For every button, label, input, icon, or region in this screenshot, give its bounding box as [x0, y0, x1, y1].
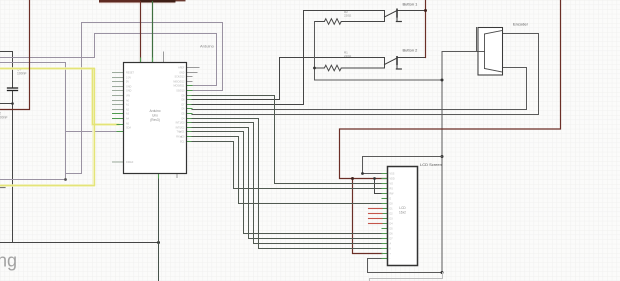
svg-text:Arduino: Arduino — [150, 109, 161, 113]
svg-text:VIN: VIN — [126, 95, 130, 98]
wire gray branch to Arduino A5 pin — [66, 131, 118, 133]
resistor R2 — [315, 11, 385, 25]
wire Arduino D0 to LCD pin4 — [192, 142, 388, 189]
svg-text:GND: GND — [179, 72, 185, 75]
wire LCD strap VDD to pin5 — [375, 179, 388, 194]
node junction resistor common — [313, 67, 316, 70]
wire resistor common rail — [315, 22, 443, 81]
svg-text:GND: GND — [126, 86, 132, 89]
wire bottom ground rail — [0, 242, 159, 244]
svg-text:Button 1: Button 1 — [403, 2, 419, 7]
wire encoder bottom right pin — [192, 68, 527, 110]
svg-text:Button 2: Button 2 — [403, 48, 419, 53]
wire LCD pin18 bottom loop — [368, 259, 443, 273]
wire Arduino bottom pin down — [158, 178, 160, 281]
svg-text:SCL: SCL — [180, 141, 185, 144]
svg-text:INT1/D3: INT1/D3 — [176, 122, 186, 125]
wire yellow halo — [0, 69, 119, 186]
node junction gray left — [64, 178, 67, 181]
wire red stubs LCD data pins — [369, 209, 383, 224]
wire C4 bottom to ground rail — [12, 92, 14, 243]
op-amp U1: Arduino Uno box — [124, 63, 187, 174]
op: Arduino left gray stubs — [113, 73, 124, 163]
svg-text:AREF: AREF — [178, 67, 185, 70]
wire green to Arduino top pin — [152, 2, 154, 63]
svg-text:LCD Screen: LCD Screen — [420, 162, 442, 167]
wire encoder left pin long vertical — [442, 52, 485, 273]
svg-text:Arduino: Arduino — [200, 44, 215, 49]
svg-text:220Ω: 220Ω — [344, 14, 352, 18]
wire faint bottom stub — [370, 273, 443, 281]
wire gray left edge loop — [0, 63, 66, 180]
label Arduino left pin names — [126, 72, 135, 165]
svg-text:VDD: VDD — [390, 178, 395, 181]
wire gray stub top pin3 — [163, 52, 165, 63]
node junction bottom loop — [441, 271, 444, 274]
transistor Q2: Button2 switch — [385, 57, 402, 69]
svg-text:Uno: Uno — [152, 113, 158, 117]
svg-text:5V: 5V — [126, 81, 129, 84]
svg-text:IOREF: IOREF — [126, 161, 134, 164]
svg-text:SCK/D13: SCK/D13 — [175, 76, 186, 79]
label LCD pin names — [390, 173, 395, 261]
svg-text:VSS: VSS — [390, 173, 395, 176]
wire top cropped nets bar — [99, 0, 141, 3]
wire maroon button rail — [425, 0, 427, 58]
wire maroon to Arduino top pin — [140, 2, 142, 63]
label cropped net left edge — [0, 187, 5, 189]
svg-text:GND: GND — [126, 90, 132, 93]
svg-text:100nF: 100nF — [0, 116, 8, 120]
svg-text:SS/D10: SS/D10 — [176, 90, 185, 93]
op: Arduino right pin green stubs — [187, 86, 193, 142]
wire encoder top right pin — [192, 34, 539, 115]
wire maroon branch to LCD pin17 — [353, 179, 383, 254]
svg-text:RESET: RESET — [126, 72, 135, 75]
node junction ground rail — [157, 241, 160, 244]
wire Arduino D2 to LCD pin12 — [192, 132, 388, 234]
wire button2 input lead — [192, 58, 385, 100]
svg-text:SDA: SDA — [126, 127, 131, 130]
svg-text:INT0/D2: INT0/D2 — [176, 127, 186, 130]
op: LCD pin green stubs — [382, 174, 388, 259]
wire button2 output to rail — [397, 57, 426, 59]
wire gray to left edge bottom — [0, 179, 66, 181]
wire branch to left edge — [0, 103, 13, 105]
wire Arduino D5 to LCD pin15 — [192, 119, 388, 249]
svg-text:RX◀D0: RX◀D0 — [176, 136, 185, 139]
op: Arduino right gray stubs — [187, 68, 200, 82]
resistor R1 — [315, 58, 385, 71]
wire Arduino D9 to LCD pin3 — [192, 96, 388, 184]
node junction below C4 — [11, 102, 14, 105]
wire LCD pin1 net — [363, 157, 443, 174]
wire net to C4 from left edge — [0, 52, 13, 88]
wire Arduino D3 to LCD pin13 — [192, 128, 388, 239]
node junction resistor rail meet — [441, 79, 444, 82]
svg-text:VO: VO — [390, 183, 394, 186]
svg-text:MISO/D12: MISO/D12 — [173, 81, 185, 84]
wire encoder left riser — [476, 28, 478, 52]
svg-text:100nF: 100nF — [17, 72, 27, 76]
svg-text:TX▶D1: TX▶D1 — [177, 131, 186, 134]
wire button1 output to rail — [397, 10, 426, 12]
wire gray outer loop to Arduino GND pin — [66, 23, 223, 174]
label Arduino right pin names — [173, 67, 185, 144]
svg-text:(Rev3): (Rev3) — [150, 118, 160, 122]
op: Arduino left green stubs — [113, 114, 124, 132]
svg-text:3.3V: 3.3V — [126, 77, 131, 80]
node junction lcd pin1 corner — [361, 172, 364, 175]
node junction button1 rail — [424, 9, 427, 12]
transistor Q1: Button1 switch — [385, 9, 402, 21]
wire maroon right rail to LCD VDD — [340, 0, 561, 179]
diode D1: Encoder box — [478, 28, 503, 76]
op-amp U2: LCD box — [388, 167, 418, 266]
wire Arduino D4 to LCD pin14 — [192, 123, 388, 244]
svg-text:LCD: LCD — [399, 206, 406, 210]
wire gray loop to Arduino AREF pin — [0, 34, 217, 86]
svg-text:MOSI/D11: MOSI/D11 — [174, 85, 186, 88]
wire maroon left rail — [0, 0, 30, 110]
wire yellow net — [0, 69, 119, 186]
wire button1 input lead — [192, 11, 385, 105]
svg-text:ng: ng — [0, 251, 17, 271]
svg-text:RS: RS — [390, 188, 394, 191]
op: Arduino top pin green stubs — [140, 58, 142, 63]
wire Arduino D1 to LCD pin7 — [192, 137, 388, 204]
node junction strap — [373, 177, 376, 180]
capacitor C4 — [8, 87, 18, 89]
svg-text:16x2: 16x2 — [399, 211, 406, 215]
svg-text:220Ω: 220Ω — [344, 54, 352, 58]
node junction lcd pin1 net meet — [441, 155, 444, 158]
svg-text:Encoder: Encoder — [513, 22, 529, 27]
op: Arduino bottom pin stubs — [158, 174, 160, 179]
node junction maroon branch — [351, 177, 354, 180]
